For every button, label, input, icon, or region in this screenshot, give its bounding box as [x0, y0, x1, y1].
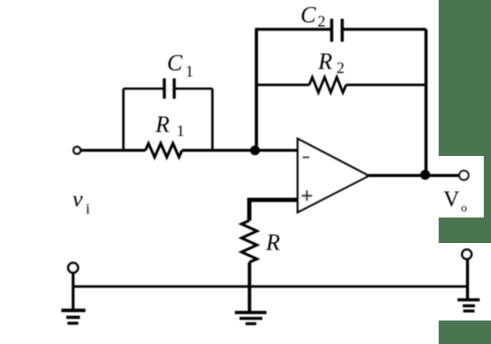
- svg-text:2: 2: [337, 60, 345, 77]
- svg-text:2: 2: [318, 14, 326, 31]
- svg-text:R: R: [155, 112, 170, 137]
- svg-text:C: C: [301, 2, 317, 27]
- svg-text:1: 1: [186, 64, 194, 81]
- svg-text:R: R: [317, 49, 332, 74]
- svg-text:1: 1: [177, 123, 185, 140]
- svg-text:C: C: [167, 51, 183, 76]
- svg-text:V: V: [444, 186, 460, 211]
- svg-text:i: i: [86, 202, 90, 218]
- svg-text:R: R: [265, 230, 280, 255]
- svg-text:v: v: [73, 187, 84, 212]
- svg-text:o: o: [461, 201, 467, 215]
